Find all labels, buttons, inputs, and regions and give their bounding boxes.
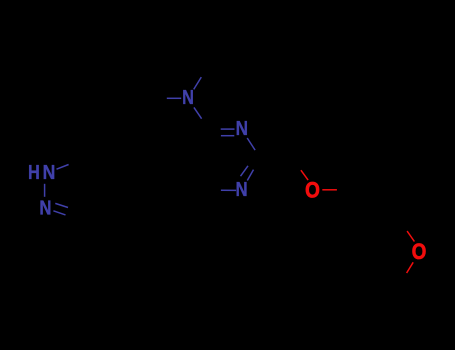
bond N2=C3 pyrazole main line bbox=[53, 211, 65, 215]
bond N1-C6 pyrimidine bbox=[221, 189, 236, 191]
svg-text:N: N bbox=[43, 161, 56, 183]
bond C4=N3 main line bbox=[221, 128, 235, 130]
svg-text:O: O bbox=[305, 178, 320, 203]
bond CH2-O1 upper left of ether bbox=[301, 170, 308, 180]
svg-text:N: N bbox=[39, 196, 51, 219]
bond C4=N3 inner line bbox=[221, 135, 234, 137]
bond N1H-N2 pyrazole bbox=[44, 184, 46, 197]
svg-text:O: O bbox=[412, 240, 427, 264]
bond N3-C2 bbox=[247, 138, 255, 150]
bond C2=N1 main line bbox=[247, 170, 253, 181]
bond CH2-O2 of methoxy bbox=[407, 231, 414, 241]
bond N-CH3 upper right of dimethylamino bbox=[194, 77, 202, 89]
bond N2=C3 pyrazole inner line bbox=[55, 203, 68, 207]
bond N1H-C5 pyrazole bbox=[57, 165, 69, 170]
bond N-CH3 left of dimethylamino bbox=[167, 97, 181, 99]
svg-text:N: N bbox=[182, 86, 194, 109]
svg-text:N: N bbox=[236, 117, 248, 140]
bond N-C4 of dimethylamino bbox=[194, 107, 202, 118]
bond O1-CH2 right of ether bbox=[322, 189, 337, 191]
svg-text:N: N bbox=[236, 178, 248, 201]
svg-text:H: H bbox=[28, 160, 40, 183]
bond O2-CH3 methoxy methyl bbox=[407, 262, 414, 273]
bond C2=N1 inner line bbox=[241, 166, 249, 176]
